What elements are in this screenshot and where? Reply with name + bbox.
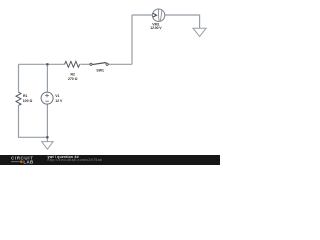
svg-text:12 V: 12 V — [55, 99, 63, 103]
svg-text:http://circuitlab.com/c2h75ab: http://circuitlab.com/c2h75ab — [48, 158, 103, 162]
svg-text:100 Ω: 100 Ω — [23, 99, 33, 103]
svg-text:V1: V1 — [55, 94, 59, 98]
svg-text:270 Ω: 270 Ω — [68, 77, 78, 81]
svg-text:R1: R1 — [23, 94, 28, 98]
svg-text:R2: R2 — [70, 73, 75, 77]
svg-text:12.00 V: 12.00 V — [150, 26, 162, 30]
svg-text:LAB: LAB — [23, 159, 33, 164]
svg-text:SW1: SW1 — [96, 69, 104, 73]
